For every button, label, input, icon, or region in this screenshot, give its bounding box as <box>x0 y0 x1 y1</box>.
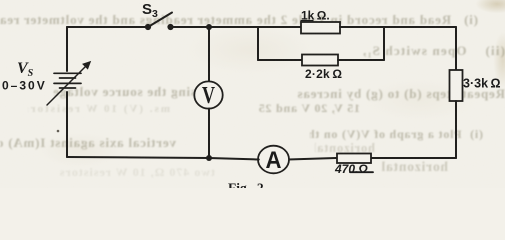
resistor R2 2.2k ohm body <box>302 55 338 66</box>
resistor R3 3.3k ohm body <box>450 70 463 101</box>
ghost bleed-through text line 5 <box>310 127 483 142</box>
wire right vertical lower <box>455 101 457 158</box>
variable source arrow <box>47 62 91 106</box>
wire parallel branch right vertical <box>383 27 385 60</box>
paper mottling <box>0 0 505 188</box>
ghost bleed-through text line 4b <box>28 103 170 115</box>
node junction dot at voltmeter tap (bottom) <box>206 155 212 161</box>
ammeter A body <box>258 146 289 174</box>
label 1k ohm <box>301 9 330 23</box>
voltmeter V body <box>194 81 222 108</box>
ghost bleed-through text line 4 <box>255 101 360 116</box>
ghost bleed-through text line 9 <box>55 165 215 180</box>
wire left vertical (source bottom lead) <box>66 92 68 157</box>
svg-text:S3: S3 <box>142 1 158 20</box>
resistor R1 1k ohm body <box>301 22 340 34</box>
ink speck left margin <box>57 130 60 133</box>
battery source Vs plate short <box>60 77 76 79</box>
svg-text:2·2k Ω: 2·2k Ω <box>305 67 342 81</box>
wire parallel branch left vertical <box>257 27 259 60</box>
circuit schematic figure <box>0 0 505 188</box>
svg-text:0–30V: 0–30V <box>2 79 47 93</box>
battery source Vs plate long <box>54 82 81 84</box>
paper grain overlay <box>0 0 505 188</box>
battery source Vs plate long top <box>54 72 81 74</box>
wire from R2 <box>338 59 384 61</box>
wire ammeter to junction <box>209 158 259 160</box>
svg-text:V: V <box>202 83 215 109</box>
ghost bleed-through text line 3a <box>227 86 505 102</box>
wire bottom right segment <box>371 157 456 159</box>
switch S3 left contact dot <box>145 24 151 30</box>
switch S3 right contact dot <box>167 24 173 30</box>
wire to resistor R2 <box>258 59 302 61</box>
wire top-left segment <box>67 26 147 28</box>
wire R4 to ammeter <box>288 158 336 160</box>
svg-text:3·3k Ω: 3·3k Ω <box>463 77 501 91</box>
ghost bleed-through text line 6 <box>0 135 176 151</box>
svg-text:VS: VS <box>17 60 34 79</box>
wire R1 to right corner <box>340 26 456 28</box>
wire right vertical upper <box>455 27 457 70</box>
switch S3 blade <box>148 13 172 28</box>
svg-text:Fig. 2: Fig. 2 <box>228 181 264 189</box>
ghost bleed-through text line 1 <box>0 12 478 28</box>
wire voltmeter branch lower <box>208 109 210 159</box>
wire left vertical (source top lead) <box>66 27 68 71</box>
wire bottom-left segment <box>67 157 209 158</box>
ghost bleed-through text line 3b <box>49 84 196 100</box>
ghost bleed-through text line 8 <box>375 159 448 175</box>
wire from switch to parallel network <box>171 26 302 28</box>
node junction dot at voltmeter tap (top) <box>206 24 212 30</box>
svg-text:470.Ω: 470.Ω <box>334 162 368 176</box>
battery source Vs plate short bottom <box>60 87 76 89</box>
wire voltmeter branch upper <box>208 27 210 82</box>
ghost bleed-through text line 2 <box>355 43 505 59</box>
svg-text:A: A <box>266 147 282 174</box>
ghost bleed-through text line 7 <box>315 141 375 156</box>
label 470 ohm <box>334 162 373 176</box>
resistor R4 470 ohm body <box>337 154 371 164</box>
